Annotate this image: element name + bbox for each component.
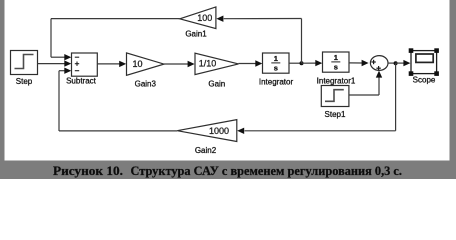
- svg-text:1: 1: [334, 53, 338, 62]
- wire Subtract output to Gain3: [97, 63, 119, 65]
- gain Gain3: [127, 53, 165, 75]
- svg-text:Step: Step: [16, 77, 33, 86]
- svg-text:Gain3: Gain3: [135, 80, 157, 89]
- selection handle top-right: [434, 48, 439, 53]
- block Step1: [321, 86, 349, 107]
- wire junction B to Scope: [396, 62, 404, 64]
- svg-text:1000: 1000: [209, 126, 229, 136]
- arrowhead into Gain: [188, 61, 195, 67]
- arrowhead into Gain2: [237, 128, 244, 134]
- sign plus left: [371, 60, 375, 64]
- arrowhead into Gain3: [119, 61, 126, 67]
- gain Gain1 (points left): [180, 7, 216, 29]
- svg-text:Рисунок 10.: Рисунок 10.: [53, 164, 123, 178]
- sign minus port1: [75, 56, 79, 58]
- wire junction to Integrator1: [302, 62, 316, 64]
- svg-text:100: 100: [197, 13, 212, 23]
- svg-text:1: 1: [274, 54, 278, 63]
- block Step: [11, 51, 38, 75]
- left gray margin strip: [0, 0, 5, 161]
- svg-text:s: s: [274, 64, 278, 73]
- gain Gain2 (points left): [177, 120, 237, 142]
- wire Gain3 to Gain: [164, 63, 188, 65]
- wire junction B down to bottom feedback: [395, 63, 397, 131]
- svg-text:Gain: Gain: [208, 80, 225, 89]
- right gray margin strip: [450, 0, 456, 161]
- value 1/s fraction: [331, 53, 340, 71]
- svg-text:Step1: Step1: [325, 110, 346, 119]
- wire top feedback into Subtract port1: [51, 56, 65, 58]
- block Subtract: [72, 53, 98, 76]
- junction dot B: [394, 61, 398, 65]
- svg-text:s: s: [334, 63, 338, 72]
- wire Gain2 output to left vertical: [59, 130, 177, 132]
- selection handle bottom-left: [409, 71, 414, 76]
- wire bottom feedback to Gain2: [245, 130, 396, 132]
- arrowhead into Subtract port2: [64, 60, 71, 66]
- selection handle top-left: [409, 48, 414, 53]
- block Scope (selected): [411, 51, 437, 74]
- svg-text:Структура САУ с временем регул: Структура САУ с временем регулирования 0…: [131, 164, 403, 178]
- block Integrator: [263, 53, 290, 73]
- svg-text:Gain2: Gain2: [195, 146, 217, 155]
- wire Step1 vertical up to Sum: [378, 77, 380, 95]
- wire top feedback vertical from junction A: [301, 19, 303, 64]
- arrowhead into Integrator: [255, 60, 262, 66]
- wire top feedback horizontal to Gain1: [224, 18, 302, 20]
- arrowhead into Subtract port1: [64, 54, 71, 60]
- scope screen: [416, 54, 433, 62]
- value 1/s fraction: [271, 54, 280, 72]
- wire Step to Subtract port2: [38, 63, 65, 65]
- wire left vertical down to Subtract port1: [50, 19, 52, 58]
- svg-text:Subtract: Subtract: [66, 76, 97, 85]
- wire bottom feedback vertical into Subtract port3: [58, 71, 60, 131]
- wire Step1 output horizontal: [349, 94, 379, 96]
- wire Integrator1 to Sum: [349, 62, 362, 64]
- svg-text:Integrator: Integrator: [259, 77, 294, 86]
- arrowhead into Integrator1: [315, 60, 322, 66]
- wire Gain to Integrator: [239, 63, 256, 65]
- selection handle bottom-right: [434, 71, 439, 76]
- arrowhead into Gain1: [216, 16, 223, 22]
- sign minus port3: [75, 70, 79, 72]
- arrowhead into Sum left port: [362, 60, 369, 66]
- arrowhead into Scope: [403, 60, 410, 66]
- wire Gain1 output left: [51, 18, 180, 20]
- junction dot A: [300, 61, 304, 65]
- svg-text:Scope: Scope: [413, 75, 436, 84]
- wire Integrator output to junction: [289, 62, 302, 64]
- svg-text:Gain1: Gain1: [185, 30, 207, 39]
- sign plus port2: [75, 62, 79, 66]
- arrowhead into Subtract port3: [64, 68, 71, 74]
- block Integrator1: [323, 52, 350, 72]
- wire stub into Subtract port3: [59, 70, 65, 72]
- svg-text:10: 10: [132, 59, 142, 69]
- wire Sum output to junction B: [388, 62, 396, 64]
- sign plus bottom: [376, 66, 380, 70]
- caption band: [0, 161, 456, 180]
- gain Gain: [195, 53, 239, 74]
- svg-text:1/10: 1/10: [199, 59, 217, 69]
- svg-text:Integrator1: Integrator1: [317, 76, 356, 85]
- sum junction circle: [370, 56, 388, 71]
- arrowhead into Sum bottom port: [376, 71, 382, 78]
